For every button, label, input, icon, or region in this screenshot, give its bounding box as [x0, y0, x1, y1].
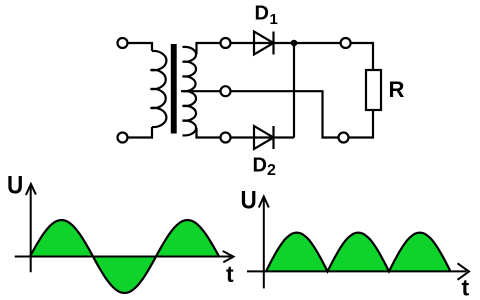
svg-text:R: R	[389, 77, 405, 102]
svg-text:1: 1	[270, 11, 278, 28]
svg-text:U: U	[7, 171, 23, 199]
svg-text:t: t	[226, 261, 234, 287]
svg-text:D: D	[253, 155, 267, 177]
svg-text:2: 2	[267, 162, 276, 179]
svg-text:t: t	[462, 275, 470, 300]
svg-text:D: D	[255, 3, 269, 25]
svg-text:U: U	[241, 186, 257, 214]
